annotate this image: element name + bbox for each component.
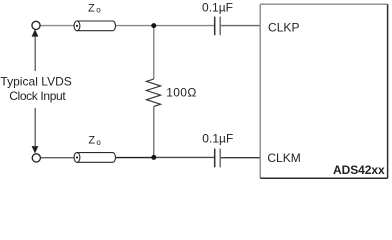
annotation arrow up to top terminal xyxy=(34,36,36,71)
svg-text:Clock Input: Clock Input xyxy=(9,89,66,103)
svg-text:100Ω: 100Ω xyxy=(166,85,196,99)
node junction (top) xyxy=(151,23,156,28)
transmission line Zo (top) xyxy=(74,21,115,31)
wire bottom: transmission line to junction xyxy=(114,157,154,159)
resistor 100 ohm (zigzag) xyxy=(146,79,160,106)
wire: vertical from top node to resistor xyxy=(153,26,155,79)
wire bottom: input circle to transmission line xyxy=(41,157,76,159)
wire: vertical from resistor to bottom node xyxy=(153,106,155,157)
svg-text:Z: Z xyxy=(88,134,95,146)
capacitor 0.1uF (bottom) xyxy=(214,149,216,168)
svg-text:0.1µF: 0.1µF xyxy=(202,1,233,15)
wire bottom: capacitor to CLKM pin xyxy=(221,157,261,159)
terminal circle (bottom LVDS input) xyxy=(32,154,40,162)
wire top: transmission line to coupling capacitor (through node) xyxy=(114,25,214,27)
annotation arrow down to bottom terminal xyxy=(34,108,36,146)
svg-text:Typical LVDS: Typical LVDS xyxy=(0,75,71,89)
transmission line Zo (bottom) xyxy=(74,153,115,163)
terminal circle (top LVDS input) xyxy=(32,21,40,29)
svg-text:o: o xyxy=(96,138,101,147)
node junction (bottom) xyxy=(151,155,156,160)
wire bottom: junction to capacitor xyxy=(154,156,214,158)
svg-text:CLKP: CLKP xyxy=(268,21,300,35)
capacitor 0.1uF (top) xyxy=(214,17,216,36)
wire top: input circle to transmission line xyxy=(40,25,75,27)
svg-text:Z: Z xyxy=(88,2,95,14)
svg-text:ADS42xx: ADS42xx xyxy=(333,163,385,177)
wire top: capacitor to CLKP pin xyxy=(221,25,261,27)
svg-text:o: o xyxy=(96,6,101,15)
svg-text:CLKM: CLKM xyxy=(267,151,300,165)
svg-text:0.1µF: 0.1µF xyxy=(202,132,233,146)
ADS42xx device box xyxy=(260,4,387,178)
